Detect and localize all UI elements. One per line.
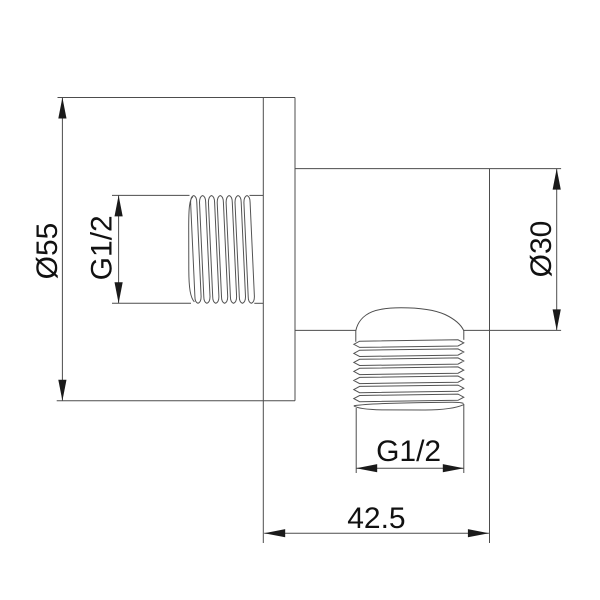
- svg-text:Ø55: Ø55: [31, 223, 64, 280]
- svg-text:G1/2: G1/2: [376, 435, 441, 468]
- svg-text:Ø30: Ø30: [525, 221, 558, 278]
- svg-text:G1/2: G1/2: [86, 215, 119, 280]
- svg-text:42.5: 42.5: [347, 502, 405, 535]
